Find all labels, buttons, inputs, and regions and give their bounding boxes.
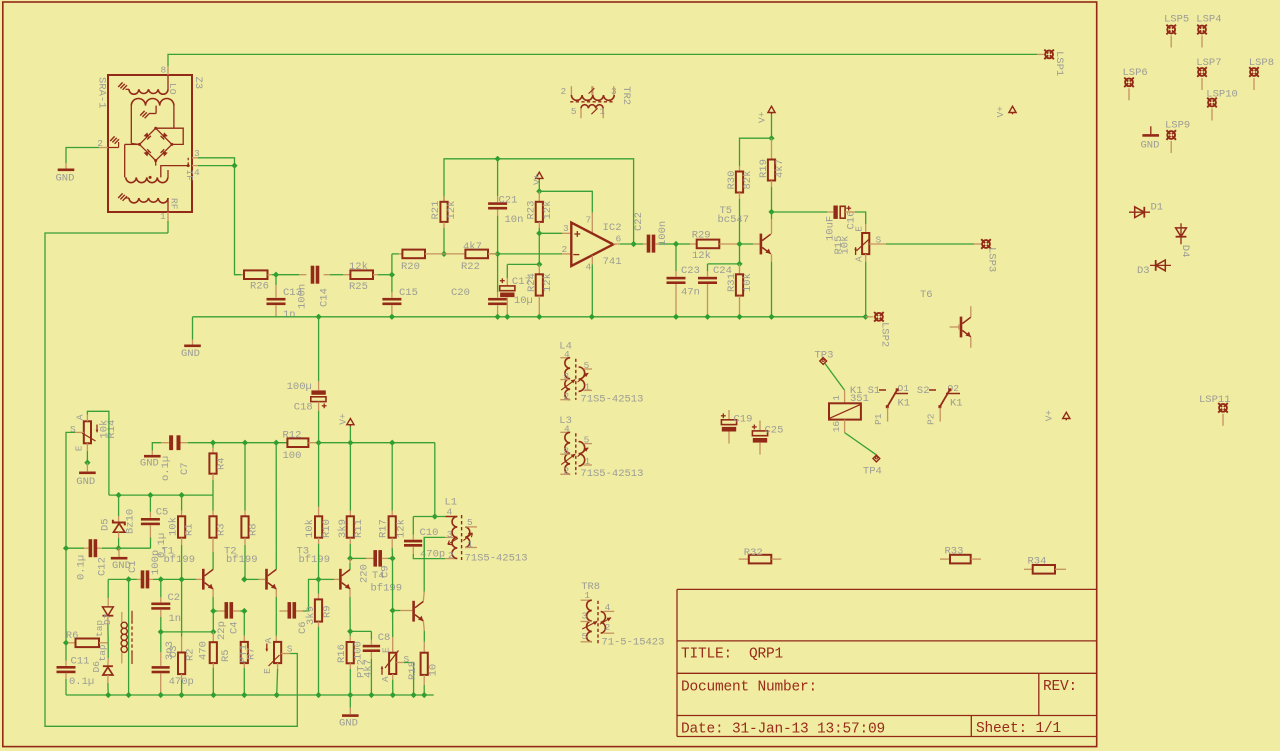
capacitor C4 bbox=[213, 602, 244, 619]
ground GND (R14) bbox=[76, 472, 95, 488]
label LSP2 bbox=[878, 322, 890, 347]
svg-text:12k: 12k bbox=[396, 519, 408, 538]
capacitor C14 bbox=[311, 266, 320, 284]
svg-text:S1: S1 bbox=[868, 385, 881, 397]
svg-text:C19: C19 bbox=[734, 414, 753, 426]
zener D5 Bz10 bbox=[113, 495, 125, 548]
wire PT1 S bbox=[45, 221, 297, 726]
resistor R33 bbox=[940, 555, 981, 564]
wire feedback top bbox=[444, 156, 637, 247]
label T5 bbox=[718, 205, 750, 226]
svg-text:3: 3 bbox=[563, 223, 569, 234]
ground GND (mixer) bbox=[56, 169, 75, 185]
resistor R29 bbox=[676, 240, 743, 249]
svg-text:GND: GND bbox=[339, 718, 358, 730]
svg-text:C22: C22 bbox=[633, 212, 645, 231]
svg-text:100n: 100n bbox=[657, 221, 669, 246]
svg-text:1: 1 bbox=[467, 539, 473, 550]
label C6 bbox=[297, 606, 317, 634]
inductor L1 bbox=[446, 515, 478, 560]
svg-text:R6: R6 bbox=[66, 630, 79, 642]
label C19 bbox=[734, 414, 753, 426]
wire T4 base bbox=[393, 610, 413, 612]
svg-text:TITLE: QRP1: TITLE: QRP1 bbox=[681, 647, 783, 663]
resistor R8 bbox=[241, 443, 248, 580]
label C22 bbox=[633, 212, 669, 246]
capacitor C19 bbox=[721, 410, 737, 444]
svg-text:LSP9: LSP9 bbox=[1165, 120, 1190, 132]
label C7 bbox=[160, 456, 191, 481]
label C11 bbox=[69, 656, 94, 689]
wire T2 collector bbox=[275, 443, 277, 570]
wire to L1 pin4 bbox=[432, 443, 438, 520]
solder pad LSP5 bbox=[1164, 13, 1189, 47]
ground GND (bottom) bbox=[339, 695, 359, 730]
relay K1 pin16 bbox=[831, 420, 845, 433]
wire V+ line bbox=[181, 440, 288, 446]
svg-text:D1: D1 bbox=[1151, 202, 1164, 214]
svg-text:R4: R4 bbox=[216, 457, 228, 470]
wire T1 emitter bbox=[210, 589, 216, 635]
svg-text:5: 5 bbox=[582, 631, 588, 642]
svg-text:tap: tap bbox=[97, 644, 108, 661]
switch S1 arm bbox=[886, 388, 899, 408]
document number text bbox=[681, 680, 817, 696]
label R11 bbox=[337, 519, 365, 538]
capacitor C18 bbox=[311, 314, 327, 443]
resistor R1 bbox=[178, 495, 185, 579]
capacitor C13 bbox=[267, 275, 286, 317]
wire R14 E bbox=[84, 443, 90, 471]
wire R15 bottom bbox=[863, 254, 869, 320]
svg-text:LSP2: LSP2 bbox=[878, 322, 890, 347]
svg-text:E: E bbox=[381, 647, 392, 653]
solder pad LSP6 bbox=[1123, 67, 1148, 100]
relay K1 coil bbox=[829, 403, 861, 419]
capacitor C5 bbox=[141, 495, 160, 548]
svg-text:V+: V+ bbox=[757, 111, 768, 123]
wire R17 to T4 base node bbox=[390, 558, 396, 613]
svg-text:3: 3 bbox=[447, 529, 453, 540]
label R6 bbox=[66, 630, 79, 642]
svg-text:A: A bbox=[380, 676, 391, 682]
resistor R21 bbox=[440, 196, 447, 228]
svg-text:71-5-15423: 71-5-15423 bbox=[601, 636, 664, 648]
resistor R26 bbox=[241, 270, 272, 279]
wire gnd rail (548) bbox=[63, 545, 151, 551]
resistor R16 bbox=[347, 642, 354, 698]
label R18 bbox=[407, 661, 440, 680]
svg-text:0.1µ: 0.1µ bbox=[69, 676, 94, 688]
svg-text:C18: C18 bbox=[294, 402, 313, 414]
svg-text:Z3: Z3 bbox=[192, 77, 204, 90]
capacitor C11 bbox=[57, 643, 76, 695]
svg-text:GND: GND bbox=[56, 173, 75, 185]
resistor R10 bbox=[315, 443, 322, 580]
potentiometer R15 bbox=[854, 233, 870, 255]
label R2 bbox=[184, 648, 196, 661]
label R22 bbox=[461, 241, 482, 273]
transistor T2 bf199 bbox=[265, 569, 276, 590]
svg-text:V+: V+ bbox=[532, 173, 543, 185]
svg-text:LO: LO bbox=[167, 83, 178, 95]
svg-text:R10: R10 bbox=[321, 519, 333, 538]
svg-text:10: 10 bbox=[428, 664, 440, 677]
transformer L4 bbox=[559, 340, 643, 405]
svg-text:4: 4 bbox=[447, 507, 453, 518]
label R17 bbox=[378, 519, 408, 538]
resistor R32 bbox=[739, 555, 782, 564]
svg-text:10k: 10k bbox=[168, 517, 180, 536]
label T1 bbox=[162, 546, 196, 567]
label R30 bbox=[726, 171, 754, 190]
capacitor C25 bbox=[752, 421, 768, 455]
svg-text:7: 7 bbox=[586, 215, 592, 226]
svg-text:R16: R16 bbox=[336, 644, 348, 663]
label R16 bbox=[336, 641, 364, 663]
svg-text:2: 2 bbox=[562, 244, 568, 255]
switch S1 contact O1 bbox=[894, 383, 909, 394]
label C18 bbox=[287, 381, 313, 414]
capacitor C23 bbox=[667, 244, 686, 320]
label C5 bbox=[156, 506, 169, 558]
svg-text:4: 4 bbox=[194, 167, 200, 178]
svg-text:C11: C11 bbox=[71, 656, 90, 668]
wire PT2 bottom bbox=[390, 674, 396, 698]
label C21 bbox=[499, 195, 524, 226]
label IC2 bbox=[586, 215, 622, 273]
svg-text:1n: 1n bbox=[283, 309, 296, 321]
svg-text:C5: C5 bbox=[156, 506, 169, 518]
label PT2 bbox=[356, 647, 410, 682]
wire R21 bottom bbox=[443, 228, 445, 254]
solder pad LSP1 bbox=[1044, 50, 1054, 60]
label R33 bbox=[945, 545, 964, 557]
transistor T4 bf199 bbox=[412, 601, 423, 622]
svg-text:LSP4: LSP4 bbox=[1196, 13, 1221, 25]
solder pad LSP4 bbox=[1196, 13, 1221, 47]
capacitor C2 bbox=[151, 579, 170, 635]
Z3 pin 8 bbox=[161, 65, 169, 76]
capacitor C15 bbox=[382, 275, 401, 320]
svg-text:TR2: TR2 bbox=[620, 86, 632, 105]
label LSP3 bbox=[985, 247, 997, 272]
svg-text:3k9: 3k9 bbox=[337, 519, 349, 538]
svg-text:LSP10: LSP10 bbox=[1206, 88, 1238, 100]
label K1 (S2) bbox=[950, 398, 963, 410]
power V+ (T5) bbox=[757, 106, 776, 123]
wire T3 base bbox=[315, 576, 339, 582]
label C15 bbox=[399, 287, 418, 299]
capacitor C20 bbox=[488, 254, 507, 320]
inductor (tap coil) bbox=[121, 611, 132, 664]
svg-text:R34: R34 bbox=[1028, 555, 1047, 567]
power V+ (opamp) bbox=[532, 172, 543, 185]
svg-text:100p: 100p bbox=[150, 550, 162, 575]
solder pad LSP2 bbox=[874, 312, 884, 322]
svg-text:16: 16 bbox=[831, 421, 842, 433]
op-amp IC2 bbox=[571, 223, 613, 266]
svg-text:C21: C21 bbox=[499, 195, 518, 207]
svg-text:R33: R33 bbox=[945, 545, 964, 557]
svg-text:R1: R1 bbox=[184, 523, 196, 536]
svg-text:351: 351 bbox=[850, 393, 869, 405]
label C14 value bbox=[296, 284, 308, 309]
resistor R34 bbox=[1024, 565, 1066, 574]
wire L1 pin3 bbox=[423, 537, 425, 558]
wire T3 collector bbox=[349, 558, 351, 569]
switch S1 pin P1 bbox=[873, 408, 888, 425]
label R32 bbox=[744, 547, 763, 559]
svg-text:R14: R14 bbox=[106, 420, 118, 439]
wire inv pin bbox=[562, 244, 572, 255]
capacitor C1 bbox=[141, 570, 150, 588]
label R1 bbox=[168, 517, 196, 536]
label R4 bbox=[216, 457, 228, 470]
svg-text:tap: tap bbox=[94, 620, 105, 637]
label pin3 bbox=[563, 223, 569, 234]
svg-text:T6: T6 bbox=[920, 289, 933, 301]
Z3 RF winding bbox=[118, 193, 168, 212]
wire R14 A bbox=[87, 411, 109, 495]
svg-text:Document Number:: Document Number: bbox=[681, 680, 817, 696]
svg-text:R24: R24 bbox=[526, 273, 538, 292]
wire noninv input bbox=[536, 228, 571, 236]
svg-text:o.1µ: o.1µ bbox=[160, 456, 172, 481]
svg-text:12k: 12k bbox=[542, 273, 554, 292]
capacitor C22 bbox=[647, 235, 679, 253]
svg-text:LSP8: LSP8 bbox=[1249, 57, 1274, 69]
capacitor C10 bbox=[404, 517, 457, 559]
svg-text:10k: 10k bbox=[304, 519, 316, 538]
wire ground rail bbox=[193, 316, 866, 318]
svg-text:LSP7: LSP7 bbox=[1196, 57, 1221, 69]
transistor T3 bf199 bbox=[339, 569, 350, 590]
label L1 bbox=[445, 497, 474, 561]
resistor R18 bbox=[421, 653, 428, 698]
svg-text:R21: R21 bbox=[430, 201, 442, 220]
svg-text:R32: R32 bbox=[744, 547, 763, 559]
svg-text:GND: GND bbox=[140, 458, 159, 470]
solder pad LSP11 bbox=[1199, 394, 1231, 426]
svg-text:82k: 82k bbox=[742, 171, 754, 190]
svg-text:C1: C1 bbox=[127, 560, 139, 573]
resistor R2 bbox=[178, 579, 185, 698]
svg-text:D4: D4 bbox=[1179, 245, 1191, 258]
switch S2 arm bbox=[938, 388, 951, 408]
svg-text:8: 8 bbox=[161, 65, 167, 76]
resistor R22 bbox=[444, 250, 498, 259]
ground GND (margin) bbox=[1141, 126, 1160, 151]
svg-text:C2: C2 bbox=[168, 592, 181, 604]
diode D1 bbox=[1129, 202, 1163, 218]
wire LO to LSP1 bbox=[168, 54, 1037, 66]
testpoint TP4 bbox=[863, 455, 882, 477]
Z3 IF winding bbox=[125, 144, 190, 182]
label C13 bbox=[283, 287, 302, 321]
wire pin7 label spacer bbox=[0, 0, 1, 1]
svg-text:V+: V+ bbox=[338, 413, 349, 425]
trimmer R7 bbox=[241, 642, 248, 663]
label SRA-1 bbox=[95, 77, 107, 109]
wire bias rail bbox=[109, 492, 213, 498]
wire V+ T5 bbox=[740, 114, 775, 166]
svg-text:R22: R22 bbox=[461, 261, 480, 273]
svg-text:C25: C25 bbox=[765, 425, 784, 437]
svg-text:R23: R23 bbox=[525, 201, 537, 220]
wire V+ stem bbox=[349, 427, 351, 443]
svg-text:C9: C9 bbox=[380, 565, 392, 578]
resistor R11 bbox=[347, 443, 354, 562]
LSP2 stub bbox=[866, 316, 874, 318]
svg-text:100µ: 100µ bbox=[287, 381, 312, 393]
svg-text:4k7: 4k7 bbox=[363, 659, 375, 678]
label C17 bbox=[512, 276, 533, 307]
label R23 bbox=[525, 201, 554, 220]
wire T2 base bbox=[241, 576, 265, 582]
svg-text:220: 220 bbox=[359, 564, 371, 583]
wire T4 emitter bbox=[422, 621, 425, 652]
resistor R20 bbox=[399, 250, 444, 259]
label C16 bbox=[825, 211, 858, 241]
svg-text:LSP11: LSP11 bbox=[1199, 394, 1231, 406]
testpoint TP3 bbox=[815, 350, 834, 365]
svg-text:LSP5: LSP5 bbox=[1164, 13, 1189, 25]
resistor R23 bbox=[536, 191, 543, 228]
label D7 bbox=[94, 614, 113, 637]
svg-text:741: 741 bbox=[603, 256, 622, 268]
switch S2 pin P2 bbox=[925, 408, 940, 425]
svg-text:R2: R2 bbox=[184, 648, 196, 661]
svg-text:REV:: REV: bbox=[1043, 679, 1077, 695]
resistor R3 bbox=[209, 480, 216, 545]
wire T5 to C16 bbox=[772, 211, 834, 213]
label R8 bbox=[248, 523, 260, 536]
resistor R17 bbox=[389, 443, 396, 559]
wire V+ node bbox=[536, 180, 592, 233]
svg-text:12k: 12k bbox=[349, 261, 368, 273]
wire C24 to R31 node bbox=[708, 244, 743, 267]
svg-text:71S5-42513: 71S5-42513 bbox=[580, 394, 643, 406]
svg-text:GND: GND bbox=[181, 348, 200, 360]
label R15 bbox=[833, 226, 881, 262]
svg-text:0.1µ: 0.1µ bbox=[76, 555, 88, 580]
label T3 bbox=[297, 546, 331, 567]
transformer L3 bbox=[559, 415, 643, 480]
svg-text:Sheet: 1/1: Sheet: 1/1 bbox=[976, 721, 1061, 737]
svg-text:LSP1: LSP1 bbox=[1053, 51, 1065, 76]
wire T3e node bbox=[350, 631, 371, 644]
svg-text:R18: R18 bbox=[407, 661, 419, 680]
label D5 bbox=[100, 509, 137, 534]
svg-text:bf199: bf199 bbox=[299, 554, 331, 566]
transformer TR8 bbox=[581, 581, 665, 648]
svg-text:10µ: 10µ bbox=[514, 295, 533, 307]
svg-text:1: 1 bbox=[831, 395, 842, 401]
wire C17 node bbox=[507, 233, 542, 267]
Z3 pin 1 bbox=[160, 211, 168, 222]
label C12 bbox=[76, 555, 109, 580]
wire opamp pin4 bbox=[589, 256, 595, 320]
svg-text:R9: R9 bbox=[322, 605, 334, 618]
wire L1 pin4 row bbox=[413, 516, 457, 518]
node R25 out bbox=[378, 272, 395, 278]
resistor R5 bbox=[210, 632, 217, 698]
svg-text:E: E bbox=[262, 668, 273, 674]
wire T2 emitter bbox=[275, 589, 277, 642]
wire T5 base bbox=[740, 243, 760, 245]
label R21 bbox=[430, 201, 458, 220]
wire PT1 bottom bbox=[274, 663, 280, 698]
label C3 bbox=[164, 641, 194, 688]
svg-text:IC2: IC2 bbox=[603, 222, 622, 234]
date text bbox=[681, 721, 885, 737]
svg-text:C10: C10 bbox=[420, 527, 439, 539]
resistor R6 bbox=[66, 639, 108, 648]
wire bottom rail bbox=[66, 692, 434, 698]
label L1 type bbox=[465, 553, 528, 565]
label LO bbox=[167, 83, 178, 95]
wire K1 to TP4 bbox=[845, 433, 877, 455]
svg-text:10k: 10k bbox=[840, 236, 852, 255]
svg-text:6: 6 bbox=[616, 234, 622, 245]
wire to C14 bbox=[276, 274, 306, 276]
relay K1 pin1 bbox=[831, 390, 845, 403]
power V+ (right) bbox=[1044, 410, 1070, 422]
capacitor C17 bbox=[500, 264, 515, 320]
resistor R9 bbox=[315, 579, 322, 698]
wire GND pin2 bbox=[66, 148, 99, 169]
label C25 bbox=[765, 425, 784, 437]
svg-text:5: 5 bbox=[467, 517, 473, 528]
solder pad LSP7 bbox=[1196, 57, 1221, 90]
Z3 ring wiring bbox=[125, 128, 184, 165]
svg-text:R29: R29 bbox=[692, 229, 711, 241]
svg-text:1: 1 bbox=[584, 590, 590, 601]
label C23 bbox=[681, 265, 700, 298]
svg-text:C8: C8 bbox=[378, 632, 391, 644]
svg-text:71S5-42513: 71S5-42513 bbox=[465, 553, 528, 565]
svg-text:12k: 12k bbox=[446, 201, 458, 220]
label IF bbox=[184, 170, 195, 182]
svg-text:E: E bbox=[853, 226, 864, 232]
resistor R30 bbox=[736, 166, 743, 244]
Z3 pin 2 bbox=[97, 136, 119, 149]
capacitor C12 bbox=[89, 539, 98, 557]
transistor T1 bf199 bbox=[202, 569, 213, 590]
label R12 bbox=[283, 429, 302, 462]
svg-text:10n: 10n bbox=[505, 214, 524, 226]
svg-text:SRA-1: SRA-1 bbox=[95, 77, 107, 109]
Z3 pin 4 bbox=[192, 166, 200, 178]
resistor R19 bbox=[768, 138, 775, 212]
wire T4 collector bbox=[423, 537, 457, 601]
svg-text:4: 4 bbox=[586, 262, 592, 273]
wire pin3/4 junction bbox=[198, 158, 238, 169]
svg-text:1: 1 bbox=[160, 211, 166, 222]
svg-text:R8: R8 bbox=[248, 523, 260, 536]
svg-text:R17: R17 bbox=[378, 519, 390, 538]
wire pin4 to R26 bbox=[235, 166, 242, 275]
wire inverting line bbox=[392, 251, 562, 275]
capacitor C21 bbox=[488, 159, 507, 254]
label Z3 bbox=[192, 77, 204, 90]
label C1 bbox=[127, 550, 162, 575]
label K1 relay bbox=[850, 385, 869, 405]
capacitor C9 bbox=[350, 550, 395, 567]
svg-text:C20: C20 bbox=[451, 287, 470, 299]
capacitor C3 bbox=[152, 632, 170, 698]
